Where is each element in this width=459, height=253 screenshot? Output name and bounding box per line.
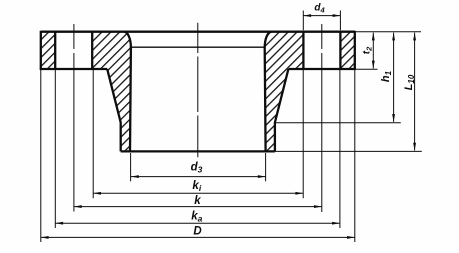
right bolt hole wall inner	[302, 32, 304, 69]
svg-text:ka: ka	[191, 211, 202, 224]
ring bottom right	[288, 68, 356, 70]
dimension line t2	[372, 33, 374, 69]
extension line ka left	[54, 70, 56, 228]
dimension line d3	[131, 176, 266, 178]
right outer edge	[354, 31, 356, 69]
left bolt hole centerline	[73, 24, 75, 212]
svg-text:d3: d3	[191, 162, 203, 175]
ring bottom left	[40, 68, 108, 70]
flange top face outline	[41, 31, 355, 33]
bottom edge of hub and bore	[121, 150, 275, 152]
vertical centerline	[197, 23, 199, 158]
left outer edge	[40, 31, 42, 69]
hub taper break extension for h1	[276, 122, 401, 124]
dimension line D	[41, 236, 355, 238]
dimension line d4	[303, 15, 340, 17]
extension line d4 right	[339, 11, 341, 31]
hatched left rim section	[41, 32, 55, 69]
right bolt hole wall outer	[339, 32, 341, 69]
hatched left hub section	[92, 32, 131, 152]
right bolt hole centerline	[321, 24, 323, 212]
dimension line ki	[93, 192, 303, 194]
svg-text:t2: t2	[362, 46, 374, 54]
svg-text:D: D	[193, 226, 201, 238]
right hub taper	[275, 69, 289, 151]
extension line ka right	[339, 70, 341, 228]
hatched right hub section	[265, 32, 304, 152]
left bore wall and fillet	[124, 32, 131, 152]
dimension line k	[74, 206, 322, 208]
right bore wall and fillet	[265, 32, 272, 152]
svg-text:L10: L10	[403, 74, 416, 90]
hub bottom extension for L10	[275, 150, 422, 152]
extension line d4 left	[302, 11, 304, 31]
hatched right rim section	[340, 32, 354, 69]
svg-text:ki: ki	[192, 180, 201, 193]
left bolt hole wall inner	[91, 32, 93, 69]
dimension line h1	[393, 33, 395, 122]
dimension line L10	[414, 33, 416, 151]
svg-text:k: k	[194, 195, 201, 207]
svg-text:d4: d4	[314, 2, 325, 14]
extension line ki left	[92, 70, 94, 198]
extension line D right	[354, 70, 356, 242]
dimension line ka	[55, 222, 340, 224]
extension line d3 left	[130, 153, 132, 181]
left bolt hole wall outer	[54, 32, 56, 69]
extension line d3 right	[265, 153, 267, 181]
left hub taper	[107, 69, 121, 151]
bore fillet tangent line	[131, 46, 265, 48]
extension line D left	[40, 70, 42, 242]
ring bottom extension right for t2	[356, 68, 378, 70]
top face extension right	[355, 31, 421, 33]
extension line ki right	[302, 70, 304, 198]
svg-text:h1: h1	[380, 70, 393, 82]
